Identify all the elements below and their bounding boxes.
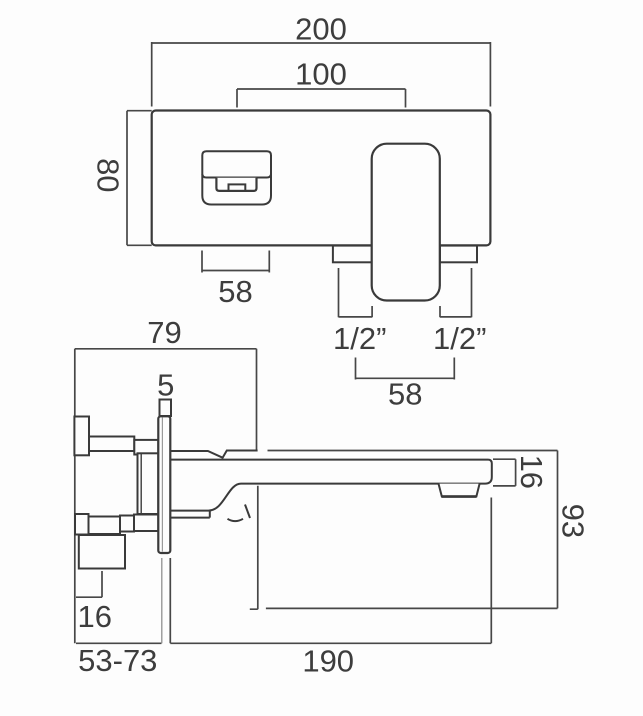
lower supply stub [170,511,210,518]
backplate front view [152,111,491,246]
dimension 1/2 right bracket [440,268,472,317]
break mark diagonal [245,505,250,519]
svg-text:16: 16 [514,455,549,489]
dimension 16 lower-left bracket [76,571,102,597]
dimension 58 under spout [202,251,269,273]
svg-text:5: 5 [157,367,174,402]
svg-text:1/2”: 1/2” [433,321,486,356]
dimension reference box 93/190 [266,451,558,609]
break mark arc [228,519,244,521]
dimension 200 lines [152,42,491,107]
spout side view [170,460,492,511]
dimension 58 lower bracket [356,358,455,380]
svg-text:200: 200 [295,12,347,47]
dimension 80 lines [127,111,152,246]
inlet stub left (front) [333,246,372,263]
svg-text:93: 93 [556,504,591,538]
aerator side view [439,484,480,497]
upper coupling [134,440,158,455]
small fitting above wall plate [160,400,172,417]
svg-text:58: 58 [218,274,252,309]
svg-text:79: 79 [147,315,181,350]
vertical reference line with foot [250,486,258,609]
upper nut [74,417,89,456]
valve body [138,453,159,514]
dimension 190 lines [170,498,491,644]
upper pipe [89,437,134,452]
svg-text:190: 190 [302,644,354,679]
svg-text:53-73: 53-73 [78,643,157,678]
svg-text:1/2”: 1/2” [333,321,386,356]
lower coupling [134,515,158,532]
lower nut [75,514,89,535]
left extension line (53-73) [74,456,76,644]
wall plate side view [158,416,170,553]
lower pipe [89,517,121,535]
dimension 79 bracket [75,349,257,451]
dimension 100 lines [237,89,406,108]
lower housing box [79,535,125,569]
spout face line [202,174,271,177]
dimension 53-73 line [76,558,162,643]
lower mid coupling [120,516,134,532]
dimension 16 spout bracket [493,459,516,486]
upper supply stub with break [170,451,257,458]
spout front view [202,151,271,204]
svg-text:80: 80 [91,158,126,192]
aerator front [229,184,246,190]
svg-text:16: 16 [78,599,112,634]
dimension 1/2 left bracket [339,268,373,317]
inlet stub right (front) [440,246,477,263]
spout underside recess [216,178,256,191]
svg-text:58: 58 [388,376,422,411]
handle front view [372,144,440,301]
svg-text:100: 100 [295,57,347,92]
